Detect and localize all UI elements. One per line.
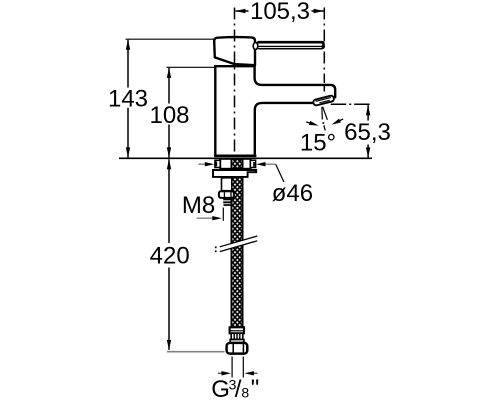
- flange plate: [213, 170, 256, 177]
- svg-text:": ": [251, 375, 260, 400]
- collar: [230, 340, 244, 343]
- spout outlet piece (aerator, tilted): [313, 95, 335, 106]
- svg-text:8: 8: [241, 384, 249, 400]
- flexible hose braid column: [231, 159, 244, 328]
- center line of body (dash-dot): [234, 8, 236, 157]
- svg-text:108: 108: [149, 102, 189, 129]
- striped section: [231, 333, 243, 339]
- svg-text:143: 143: [108, 85, 148, 112]
- M8 label and arrow: [182, 192, 223, 221]
- G 3/8 dimension: [211, 357, 259, 400]
- shank under body: [220, 159, 250, 169]
- handle cap: [214, 37, 255, 65]
- dia 46 leader: [198, 162, 313, 207]
- svg-text:105,3: 105,3: [250, 0, 310, 25]
- hose break symbol (white band + two diagonal lines): [215, 236, 257, 252]
- 15 deg right arrow: [331, 117, 345, 127]
- 15 deg left arrow: [306, 120, 320, 128]
- 15 deg stream lines: [321, 107, 323, 120]
- dim 108: [149, 67, 214, 157]
- dim 420: [150, 159, 225, 351]
- dim 105,3: [235, 0, 323, 25]
- svg-text:G: G: [211, 376, 230, 400]
- svg-text:ø46: ø46: [272, 180, 313, 207]
- svg-text:420: 420: [150, 242, 190, 269]
- thread ridges: [223, 198, 232, 200]
- mounting surface line: [119, 157, 372, 159]
- M8 hex head: [219, 191, 234, 198]
- faucet body and spout outline: [215, 66, 335, 155]
- svg-text:M8: M8: [182, 192, 215, 219]
- outlet level dash-dot (horizontal): [331, 103, 371, 105]
- right tab: [250, 160, 255, 167]
- hose end ferrule: [230, 327, 244, 333]
- svg-text:65,3: 65,3: [344, 119, 391, 146]
- body bottom edge: [214, 155, 256, 158]
- dim 65,3: [344, 105, 391, 157]
- left tab: [215, 160, 220, 167]
- lever rod connector ellipse: [253, 43, 258, 50]
- dim 143: [108, 39, 214, 157]
- M8 stud column: [222, 178, 232, 191]
- center line at spout end (dash-dot): [323, 8, 325, 84]
- lever rod: [256, 41, 325, 50]
- svg-text:15°: 15°: [300, 130, 336, 157]
- end nut: [227, 343, 248, 354]
